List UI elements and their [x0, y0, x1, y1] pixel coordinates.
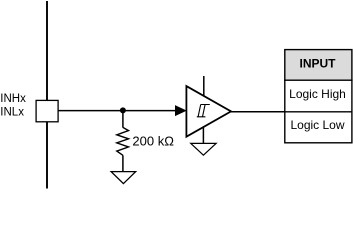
table row divider: [285, 111, 352, 113]
wire buffer to ground: [202, 125, 204, 143]
svg-text:INPUT: INPUT: [300, 57, 337, 71]
pin box INHx/INLx: [36, 100, 58, 121]
junction dot: [120, 107, 126, 113]
svg-text:INLx: INLx: [0, 107, 24, 119]
svg-text:200 kΩ: 200 kΩ: [132, 134, 174, 149]
output wire to table: [231, 111, 285, 113]
wire box to buffer: [58, 110, 184, 112]
svg-text:Logic High: Logic High: [289, 87, 346, 101]
wire junction to resistor: [122, 110, 124, 127]
supply stub on buffer: [203, 76, 205, 96]
table header cell INPUT: [285, 50, 352, 81]
input rail (vertical bus wire): [46, 1, 48, 189]
svg-text:Logic Low: Logic Low: [290, 118, 344, 132]
resistor R 200k zigzag: [117, 127, 129, 155]
svg-text:INHx: INHx: [0, 93, 26, 105]
input arrow into buffer: [175, 106, 185, 116]
hysteresis symbol: [197, 105, 210, 117]
ground (under buffer): [191, 143, 216, 155]
schmitt buffer U1 triangle: [186, 86, 231, 137]
wire resistor to ground: [122, 155, 124, 171]
ground (under resistor): [111, 172, 136, 184]
table body outline: [285, 80, 352, 143]
